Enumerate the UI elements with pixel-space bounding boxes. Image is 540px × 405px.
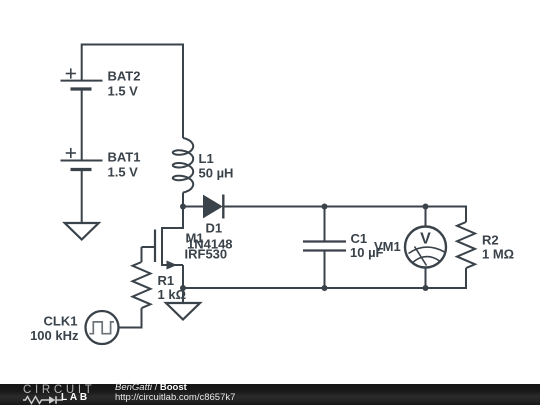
wire bottom rail C1 to node B	[183, 287, 325, 289]
wire node A to M1 drain	[162, 207, 183, 229]
node C top junction dot	[322, 204, 328, 210]
ground GND2	[166, 303, 200, 320]
resistor R1	[133, 262, 151, 308]
capacitor C1	[303, 242, 346, 251]
wire M1 source to node B	[182, 265, 184, 288]
node C bottom junction dot	[322, 285, 328, 291]
svg-text:D1: D1	[206, 221, 223, 236]
svg-text:IRF530: IRF530	[185, 247, 228, 262]
clock source CLK1	[86, 311, 119, 344]
CircuitLab logo resistor-diode squiggle	[23, 395, 67, 405]
ground GND1	[65, 223, 99, 240]
wire node B to ground stem	[182, 288, 184, 303]
inductor L1	[173, 138, 193, 193]
svg-text:CLK1: CLK1	[44, 314, 78, 329]
wire top rail VM1 to R2	[426, 207, 467, 223]
wire M1 gate to R1 top	[141, 247, 143, 262]
node D bottom junction dot	[423, 285, 429, 291]
svg-text:BAT1: BAT1	[108, 150, 141, 165]
wire VM1 top lead	[425, 207, 427, 228]
wire BAT1 minus to ground	[81, 170, 83, 224]
wire R1 bottom to CLK1	[119, 308, 142, 327]
svg-text:C1: C1	[351, 231, 368, 246]
wire C1 bottom lead	[324, 251, 326, 289]
wire L1 bottom to node A	[182, 193, 184, 207]
wire C1 top lead	[324, 207, 326, 242]
wire VM1 bottom lead	[425, 268, 427, 289]
transistor M1 (NMOS)	[142, 227, 184, 270]
svg-text:1 kΩ: 1 kΩ	[158, 287, 187, 302]
wire bottom rail VM1 to C1	[325, 287, 426, 289]
diode D1	[204, 195, 224, 219]
wire top rail from BAT2 plus to L1 top	[82, 45, 183, 139]
wire BAT2 minus to BAT1 plus	[81, 89, 83, 161]
node B junction dot	[180, 285, 186, 291]
svg-text:100 kHz: 100 kHz	[30, 328, 79, 343]
wire node A to D1 anode	[183, 206, 204, 208]
svg-text:M1: M1	[186, 231, 204, 246]
wire top rail C1 to VM1	[325, 206, 426, 208]
node A junction dot	[180, 204, 186, 210]
resistor R2	[457, 222, 475, 268]
svg-text:1.5 V: 1.5 V	[108, 84, 139, 99]
node D top junction dot	[423, 204, 429, 210]
voltmeter VM1	[405, 227, 446, 268]
CircuitLab logo wordmark	[23, 384, 103, 405]
svg-text:R1: R1	[158, 273, 175, 288]
wire D1 cathode to C1 top node	[223, 206, 324, 208]
svg-text:R2: R2	[482, 233, 499, 248]
svg-text:VM1: VM1	[374, 239, 401, 254]
battery BAT1	[61, 148, 103, 170]
footer author/title text	[115, 383, 235, 402]
svg-text:V: V	[420, 231, 431, 248]
wire R2 bottom to bottom rail	[426, 268, 467, 288]
svg-text:50 µH: 50 µH	[199, 166, 234, 181]
svg-text:L1: L1	[199, 151, 214, 166]
battery BAT2	[61, 68, 103, 89]
svg-text:1 MΩ: 1 MΩ	[482, 247, 514, 262]
svg-text:1.5 V: 1.5 V	[108, 165, 139, 180]
svg-text:BAT2: BAT2	[108, 69, 141, 84]
